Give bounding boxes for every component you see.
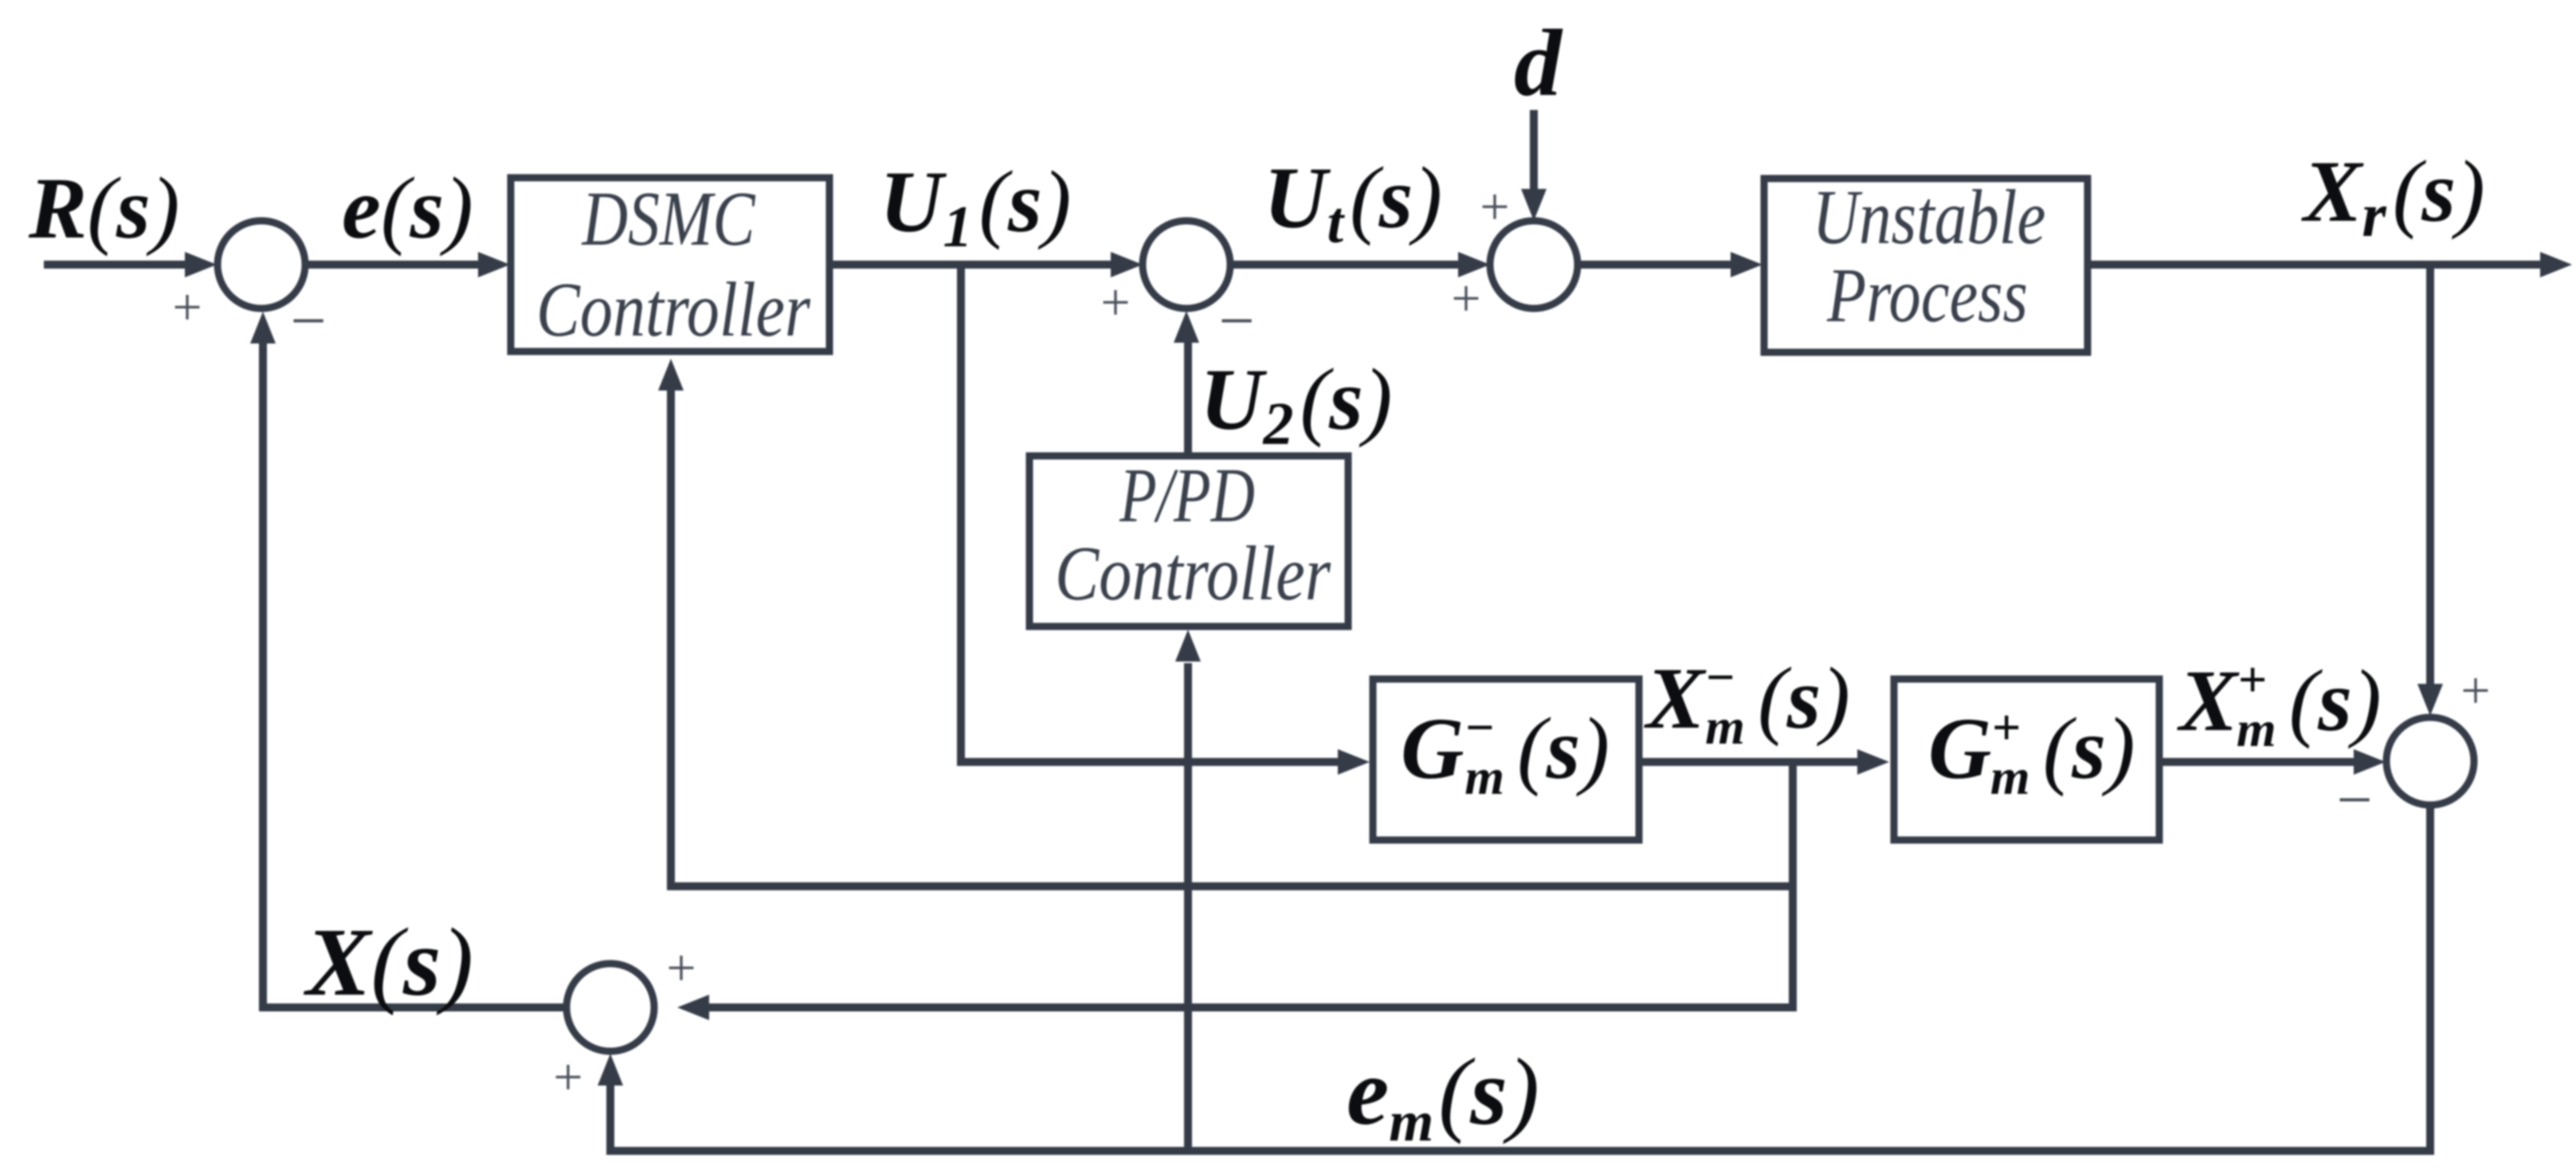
svg-text:−: − — [1218, 286, 1254, 356]
arrow into C1 — [185, 252, 217, 277]
svg-text:DSMC: DSMC — [581, 176, 756, 262]
svg-text:Process: Process — [1826, 253, 2028, 339]
arrow up into P/PD bottom — [1175, 630, 1201, 662]
wire Gm- to Gm+ — [1637, 758, 1857, 766]
wire feedback to DSMC — [671, 391, 1793, 886]
arrow into DSMC left — [478, 252, 510, 277]
block P/PD Controller — [1029, 456, 1348, 626]
arrow up into DSMC bottom — [658, 359, 684, 391]
svg-text:+: + — [1451, 269, 1480, 328]
summing junction C3 — [1490, 221, 1578, 308]
svg-text:R(s): R(s) — [28, 159, 179, 257]
svg-text:+: + — [553, 1048, 582, 1106]
arrow em up into C5 — [598, 1054, 623, 1086]
wire d input — [1530, 110, 1538, 189]
arrow into C4 left — [2354, 749, 2386, 775]
svg-text:−: − — [2336, 765, 2372, 835]
svg-text:Controller: Controller — [1055, 531, 1331, 617]
arrow into C5 right — [677, 995, 709, 1020]
summing junction C5 — [567, 964, 654, 1051]
wire U1(s) — [829, 261, 1111, 269]
svg-text:U1(s): U1(s) — [880, 153, 1072, 260]
arrow U2 into C2 — [1174, 311, 1199, 343]
svg-text:U2(s): U2(s) — [1200, 351, 1393, 457]
svg-text:Xr(s): Xr(s) — [2301, 143, 2485, 249]
svg-text:X−m(s): X−m(s) — [1644, 649, 1850, 755]
wire Xm- branch down to C5 — [709, 762, 1793, 1007]
wire X(s) to C1 — [263, 344, 568, 1007]
svg-text:Controller: Controller — [536, 267, 811, 353]
block Unstable Process — [1764, 179, 2088, 352]
svg-text:X+m(s): X+m(s) — [2177, 651, 2382, 757]
svg-text:P/PD: P/PD — [1119, 453, 1255, 539]
wire Xr(s) output — [2088, 261, 2540, 269]
arrow into Gm- — [1338, 749, 1370, 775]
arrow Xr down into C4 — [2417, 684, 2443, 716]
svg-text:em(s): em(s) — [1347, 1039, 1539, 1153]
svg-text:d: d — [1514, 10, 1563, 116]
summing junction C1 — [218, 221, 305, 308]
wire R(s) input — [44, 261, 185, 269]
wire e(s) — [305, 261, 478, 269]
arrow d into C3 — [1521, 189, 1547, 221]
svg-text:X(s): X(s) — [303, 909, 473, 1016]
svg-text:+: + — [666, 939, 696, 997]
svg-text:Ut(s): Ut(s) — [1264, 149, 1442, 256]
block Gm+(s) — [1894, 679, 2159, 840]
arrow into C2 — [1111, 252, 1143, 277]
svg-text:+: + — [1480, 178, 1509, 236]
arrow into C3 — [1458, 252, 1490, 277]
wire U1 branch to Gm- — [961, 265, 1338, 762]
arrow into Gm+ — [1857, 749, 1889, 775]
svg-text:−: − — [290, 286, 326, 356]
arrow into Unstable Process — [1731, 252, 1762, 277]
wire Gm+ to C4 — [2161, 758, 2354, 766]
svg-text:+: + — [172, 278, 202, 336]
block Gm-(s) — [1373, 679, 1639, 840]
wire C2 to C3 — [1230, 261, 1458, 269]
wire em feedback C4 down left up to C5 — [610, 803, 2430, 1151]
wire em to P/PD — [1184, 663, 1192, 1151]
svg-text:+: + — [2460, 662, 2490, 720]
svg-text:Unstable: Unstable — [1813, 175, 2046, 261]
arrow output right edge — [2540, 252, 2572, 277]
svg-text:+: + — [1100, 273, 1130, 332]
block DSMC Controller — [511, 178, 829, 351]
arrow X(s) up into C1 — [250, 312, 276, 344]
svg-text:e(s): e(s) — [342, 159, 473, 257]
wire C3 to Unstable Process — [1576, 261, 1731, 269]
summing junction C2 — [1143, 221, 1230, 308]
wire U2(s) — [1184, 343, 1192, 454]
wire Xr branch down to C4 — [2426, 269, 2434, 684]
summing junction C4 — [2386, 717, 2474, 805]
